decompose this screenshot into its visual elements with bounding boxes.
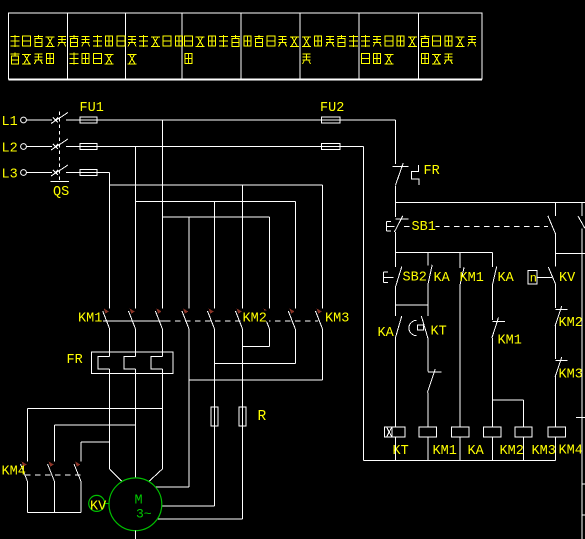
wire L1 fuse to FU2 bbox=[97, 119, 322, 121]
header cell text: 反接制动装置 bbox=[185, 35, 240, 64]
rotor lead 3 horizontal bbox=[157, 518, 242, 520]
svg-text:FR: FR bbox=[67, 353, 83, 368]
pushbutton SB1 blade (NC) bbox=[394, 216, 403, 232]
split to KM2/KM3 coils bbox=[492, 399, 523, 401]
wire KM2 coil to bottom bus bbox=[491, 437, 493, 460]
fuse FU2 element 1 (L1) bbox=[322, 117, 341, 123]
motor shaft stub bbox=[134, 531, 136, 539]
wire L2 switch to fuse bbox=[66, 146, 80, 148]
wire SB2 to H-join bbox=[395, 287, 397, 305]
contact KA (NO, row3) blade bbox=[395, 316, 401, 338]
contactor KM1 pole1 main contact (NO) at x=109.7 bbox=[103, 308, 110, 329]
svg-text:FU1: FU1 bbox=[80, 101, 104, 116]
time-delay contact KT (NO delayed) blade bbox=[421, 316, 428, 338]
motor M circle bbox=[109, 478, 162, 531]
terminal circle L1 bbox=[21, 117, 27, 123]
contactor KM3 pole3 main contact (NO) at x=322.5 bbox=[316, 308, 323, 329]
switch QS pole L3 blade bbox=[51, 165, 68, 176]
wire to KM2 coil bbox=[491, 400, 493, 427]
svg-text:L2: L2 bbox=[2, 142, 18, 157]
svg-text:KM3: KM3 bbox=[559, 368, 583, 383]
right branch join bbox=[556, 252, 585, 254]
wire KM3 coil to bottom bus bbox=[523, 437, 525, 460]
wire KM1 pole2 to motor (phase B) bbox=[135, 329, 137, 357]
wire bus2 to KA contact bbox=[427, 253, 429, 266]
header cell text: 电机三角形低速运转 bbox=[70, 35, 125, 65]
header cell text: 电机高速控制电路 bbox=[361, 35, 417, 64]
wire KM2 pole1 output to rotor lead 1 bbox=[188, 329, 190, 487]
wire drop to KM3 pole 2 bbox=[294, 201, 296, 308]
wire to KM3 coil bbox=[523, 400, 525, 427]
contact KM1 (NO, row2) blade bbox=[460, 267, 464, 286]
right edge tick 2 bbox=[582, 483, 585, 485]
wire KM1-NC down bbox=[491, 338, 493, 400]
wire L2 to switch bbox=[26, 146, 52, 148]
wire L2 control feed vertical bbox=[363, 147, 365, 461]
wire bus2 to KA contact 2 bbox=[491, 253, 493, 268]
KV n-box link bbox=[537, 276, 552, 278]
switch QS linkage dashed line bbox=[58, 112, 60, 182]
wire KM2-NC down bbox=[555, 326, 557, 360]
fuse FU1 element L2 bbox=[80, 143, 97, 149]
wire L1 through FU2 bbox=[322, 119, 341, 121]
wire KM1 row2 to KA coil bbox=[459, 286, 461, 427]
header table column line 1 bbox=[67, 13, 69, 79]
contactor KM2 pole2 main contact (NO) at x=214.5 bbox=[208, 308, 215, 329]
svg-text:KA: KA bbox=[498, 271, 515, 286]
wire right edge branch bbox=[581, 229, 583, 539]
label KM3 (main contacts) bbox=[325, 311, 350, 327]
header table column line 7 bbox=[418, 13, 420, 79]
wire L3 switch to fuse bbox=[66, 172, 80, 174]
svg-text:KA: KA bbox=[468, 444, 485, 459]
wire drop to KM2 pole 1 bbox=[188, 217, 190, 308]
label KM2 (main contacts) bbox=[242, 311, 269, 327]
pushbutton SB1 actuator E bbox=[386, 222, 394, 232]
wire L1 control feed vertical bbox=[395, 120, 397, 164]
interlock contact KM1 (NC) bbox=[492, 317, 505, 338]
wire KM4 pole3 tee (to phase A) bbox=[81, 441, 110, 443]
wire drop to KM2 pole 3 bbox=[242, 185, 244, 309]
header table frame bbox=[9, 13, 483, 79]
contactor KM4 pole2 main contact (NO) at x=54.5 bbox=[48, 461, 55, 481]
contactor KM1 coil bbox=[419, 427, 436, 437]
wire NC to KM1 coil bbox=[427, 393, 429, 428]
wire KA row2 down bbox=[427, 285, 429, 317]
wire FU2 to control corner bbox=[340, 119, 396, 121]
thermal relay FR control contact (NC) bbox=[393, 163, 419, 185]
wire L3 to switch bbox=[26, 172, 52, 174]
contactor KM2 pole1 main contact (NO) at x=189 bbox=[182, 308, 189, 329]
svg-text:KM1: KM1 bbox=[78, 312, 102, 327]
distribution bus H3 (L1 phase) bbox=[162, 216, 269, 218]
header table column line 5 bbox=[299, 13, 301, 79]
terminal circle L2 bbox=[21, 144, 27, 150]
wire L1 drop to KM1 pole 3 bbox=[161, 120, 163, 309]
wire L2 drop to KM1 pole 2 bbox=[135, 147, 137, 309]
switch QS pole L1 blade bbox=[51, 113, 68, 124]
wire KT coil to bottom bus bbox=[395, 437, 397, 460]
terminal circle L3 bbox=[21, 170, 27, 176]
wire KM4 pole1 tee (to phase C) bbox=[28, 408, 163, 410]
KT delay box bbox=[417, 325, 423, 330]
wire L3 fuse to corner bbox=[97, 172, 110, 174]
KM1-KM2-KM3 linkage dashed bbox=[165, 320, 318, 322]
interlock contact KM2 (NC) bbox=[555, 306, 567, 326]
wire KM4 pole2 bottom bbox=[54, 482, 56, 513]
svg-text:KM3: KM3 bbox=[532, 444, 556, 459]
relay KA coil bbox=[452, 427, 469, 437]
header table bottom border bbox=[9, 79, 483, 81]
wire SB1 to bus2 bbox=[395, 232, 397, 253]
wire top bus to SB1-linked contact bbox=[555, 203, 557, 216]
pushbutton SB2 actuator E bbox=[384, 272, 394, 283]
resistor R element 2 bbox=[239, 407, 246, 426]
header cell text: 反接制动控制电路 bbox=[421, 35, 476, 64]
wire KM4 pole3 bottom bbox=[80, 482, 82, 513]
pushbutton SB1 linked contact (NO) blade bbox=[548, 216, 556, 234]
wire KM1 coil to bottom bus bbox=[427, 437, 429, 460]
svg-text:L3: L3 bbox=[2, 168, 18, 183]
time relay KT coil bbox=[384, 427, 405, 437]
wire KM3 pole2 bottom jog bbox=[294, 329, 296, 363]
fuse FU2 element 2 (L2) bbox=[322, 143, 341, 149]
SB1 linkage dashed bbox=[404, 225, 548, 227]
svg-text:KM2: KM2 bbox=[559, 316, 583, 331]
contact at right edge (blade) bbox=[578, 216, 585, 229]
interlock contact KM3 (NC) bbox=[555, 357, 567, 377]
wire L1 switch to fuse bbox=[66, 119, 80, 121]
rotor lead 1 horizontal bbox=[155, 486, 189, 488]
svg-text:KM3: KM3 bbox=[325, 312, 349, 327]
contactor KM1 pole2 main contact (NO) at x=135.5 bbox=[129, 308, 136, 329]
speed relay KV contact (NO) blade bbox=[548, 267, 555, 284]
svg-text:KM1: KM1 bbox=[433, 444, 457, 459]
svg-text:KM2: KM2 bbox=[500, 444, 524, 459]
speed sensor shaft link bbox=[105, 503, 109, 505]
KM1 linkage bar bbox=[103, 320, 165, 322]
wire KV to KM2-NC bbox=[555, 284, 557, 308]
header table column line 2 bbox=[125, 13, 127, 79]
svg-text:KM1: KM1 bbox=[460, 271, 484, 286]
distribution bus H1 (L3 phase) bbox=[110, 184, 323, 186]
wire L2 through FU2 bbox=[322, 146, 341, 148]
svg-text:KT: KT bbox=[393, 444, 409, 459]
resistor R element 1 bbox=[211, 407, 218, 426]
wire KA row3 top bbox=[395, 305, 397, 316]
header table column line 3 bbox=[181, 13, 183, 79]
contact KA (NO, row2b) blade bbox=[492, 267, 496, 286]
rotor lead 2 horizontal bbox=[162, 505, 215, 507]
wire FU2 to L2 feed corner bbox=[340, 146, 364, 148]
wire KM1 pole1 to motor (phase A) bbox=[109, 329, 111, 357]
svg-text:QS: QS bbox=[53, 185, 69, 200]
header cell text: 电源开关及保护装置 bbox=[11, 35, 66, 64]
switch QS bottom bar bbox=[51, 181, 70, 183]
wire L3 drop to KM1 pole 1 bbox=[109, 173, 111, 309]
svg-text:KM2: KM2 bbox=[243, 312, 267, 327]
contact KA (NO, row2) blade bbox=[428, 265, 432, 285]
svg-text:L1: L1 bbox=[2, 115, 18, 130]
control bottom bus bbox=[364, 459, 556, 461]
svg-text:KM4: KM4 bbox=[559, 444, 583, 459]
header cell text: 低速控制电路 bbox=[302, 35, 358, 64]
svg-text:KV: KV bbox=[559, 271, 576, 286]
right edge tick 1 bbox=[576, 417, 585, 419]
wire drop to KM3 pole 3 bbox=[322, 185, 324, 309]
svg-text:R: R bbox=[258, 409, 267, 425]
svg-text:SB1: SB1 bbox=[412, 220, 436, 235]
wire KM1 pole3 to motor (phase C) bbox=[161, 329, 163, 357]
wire drop to KM2 pole 2 bbox=[214, 201, 216, 308]
svg-text:KA: KA bbox=[434, 271, 451, 286]
right edge tick 3 bbox=[582, 514, 585, 516]
wire L1 to switch bbox=[26, 119, 52, 121]
svg-text:KM4: KM4 bbox=[2, 465, 26, 480]
wire FR to top bus node bbox=[395, 185, 397, 217]
svg-text:KV: KV bbox=[90, 500, 107, 515]
svg-text:SB2: SB2 bbox=[403, 271, 427, 286]
svg-text:FR: FR bbox=[424, 164, 440, 179]
KT delay arc bbox=[409, 320, 417, 335]
distribution bus H2 (L2 phase) bbox=[136, 200, 296, 202]
thermal overload relay FR heater element bbox=[92, 352, 173, 373]
wire drop to KM3 pole 1 bbox=[269, 217, 271, 308]
contactor KM3 coil bbox=[515, 427, 532, 437]
switch QS pole L2 fixed-contact x-mark bbox=[53, 144, 58, 149]
speed sensor KV circle bbox=[89, 495, 105, 511]
pushbutton SB2 blade (NO) bbox=[396, 267, 402, 288]
header table column line 6 bbox=[358, 13, 360, 79]
contactor KM2 coil bbox=[484, 427, 501, 437]
KV actuator n-box bbox=[528, 271, 537, 286]
wire KA row2b down bbox=[491, 285, 493, 320]
KM4 shorting bus bbox=[28, 511, 82, 513]
contactor KM3 pole1 main contact (NO) at x=269.5 bbox=[263, 308, 270, 329]
KM4 linkage dashed bbox=[25, 474, 83, 476]
fuse FU1 element L1 bbox=[80, 117, 97, 123]
wire L3 through fuse bbox=[80, 172, 97, 174]
contactor KM4 coil bbox=[548, 427, 565, 437]
svg-text:3~: 3~ bbox=[136, 507, 152, 522]
svg-text:FU2: FU2 bbox=[320, 101, 344, 116]
switch QS pole L1 fixed-contact x-mark bbox=[53, 118, 58, 123]
control top bus bbox=[396, 202, 585, 204]
svg-text:KM1: KM1 bbox=[498, 334, 522, 349]
svg-text:KA: KA bbox=[378, 326, 395, 341]
header table column line 4 bbox=[240, 13, 242, 79]
contactor KM3 pole2 main contact (NO) at x=295.3 bbox=[288, 308, 295, 329]
wire KM4 pole1 bottom bbox=[27, 482, 29, 513]
fuse FU1 element L3 bbox=[80, 169, 97, 175]
parallel join SB2/KA bbox=[396, 304, 428, 306]
switch QS pole L2 blade bbox=[51, 139, 68, 150]
label SB1 bbox=[411, 220, 436, 236]
wire KM4 coil to bottom bus bbox=[555, 437, 557, 460]
svg-text:n: n bbox=[530, 272, 537, 286]
wire KM3 pole3 bottom jog bbox=[322, 329, 324, 380]
switch QS pole L3 fixed-contact x-mark bbox=[53, 170, 58, 175]
wire KA coil to bottom bus bbox=[459, 437, 461, 460]
wire KM3-NC to KM4 coil bbox=[555, 377, 557, 428]
contactor KM1 pole3 main contact (NO) at x=162.4 bbox=[155, 308, 162, 329]
wire KM2 pole2 output to rotor lead 2 bbox=[214, 329, 216, 506]
wire L2 fuse to FU2 bbox=[97, 146, 322, 148]
contactor KM4 pole3 main contact (NO) at x=81 bbox=[74, 461, 81, 481]
header cell text: 电机高速转动 bbox=[128, 35, 183, 64]
contactor KM2 pole3 main contact (NO) at x=242.5 bbox=[236, 308, 243, 329]
wire KM2 pole3 output to rotor lead 3 bbox=[242, 329, 244, 519]
wire L1 through fuse bbox=[80, 119, 97, 121]
wire KT contact down bbox=[427, 338, 429, 371]
header cell text: 时间继电器 bbox=[244, 35, 299, 47]
pushbutton SB1 seat bbox=[396, 218, 409, 220]
wire KM4 pole2 tee (to phase B) bbox=[55, 424, 136, 426]
contactor KM4 pole1 main contact (NO) at x=27.5 bbox=[21, 461, 28, 481]
wire bus2 to SB2 bbox=[395, 253, 397, 268]
wire SB1-linked down bbox=[555, 234, 557, 267]
interlock contact (NC) on KM1 branch bbox=[427, 369, 441, 393]
wire L2 through fuse bbox=[80, 146, 97, 148]
svg-text:KT: KT bbox=[431, 325, 447, 340]
wire KM3 pole1 bottom jog bbox=[269, 329, 271, 347]
wire KA row3 to KT coil bbox=[395, 338, 397, 427]
wire bus2 to KM1 contact bbox=[459, 253, 461, 268]
wire top bus to right edge contact bbox=[581, 203, 583, 216]
control bus 2 bbox=[396, 252, 493, 254]
